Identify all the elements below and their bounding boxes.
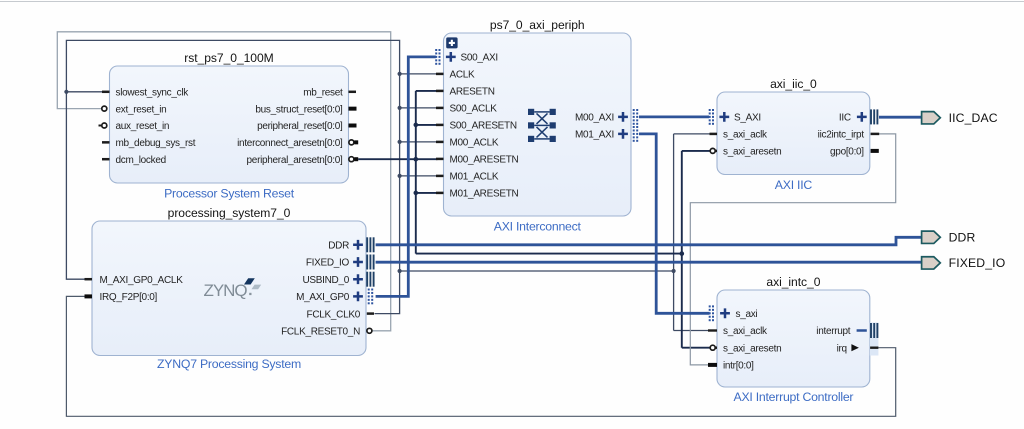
svg-text:FCLK_CLK0: FCLK_CLK0: [307, 309, 361, 320]
svg-text:mb_reset: mb_reset: [303, 88, 343, 99]
svg-text:s_axi: s_axi: [736, 309, 758, 320]
svg-text:M01_ARESETN: M01_ARESETN: [450, 189, 519, 200]
svg-text:ext_reset_in: ext_reset_in: [116, 104, 167, 115]
svg-text:gpo[0:0]: gpo[0:0]: [830, 147, 864, 158]
svg-text:irq: irq: [837, 343, 847, 354]
svg-text:ps7_0_axi_periph: ps7_0_axi_periph: [490, 18, 585, 32]
svg-text:bus_struct_reset[0:0]: bus_struct_reset[0:0]: [255, 104, 343, 115]
svg-text:DDR: DDR: [328, 241, 349, 252]
svg-text:iic2intc_irpt: iic2intc_irpt: [818, 130, 865, 141]
svg-text:aux_reset_in: aux_reset_in: [116, 121, 170, 132]
svg-text:IIC_DAC: IIC_DAC: [949, 111, 998, 125]
svg-text:interrupt: interrupt: [816, 326, 851, 337]
svg-text:Processor System Reset: Processor System Reset: [164, 187, 295, 201]
svg-text:IIC: IIC: [839, 113, 851, 124]
svg-text:DDR: DDR: [949, 231, 976, 245]
svg-text:FIXED_IO: FIXED_IO: [949, 256, 1006, 270]
svg-text:s_axi_aresetn: s_axi_aresetn: [723, 343, 781, 354]
svg-text:M01_AXI: M01_AXI: [575, 130, 614, 141]
svg-text:slowest_sync_clk: slowest_sync_clk: [116, 88, 190, 99]
svg-text:AXI IIC: AXI IIC: [775, 178, 813, 192]
svg-text:FCLK_RESET0_N: FCLK_RESET0_N: [281, 327, 360, 338]
svg-text:IRQ_F2P[0:0]: IRQ_F2P[0:0]: [100, 292, 158, 303]
svg-text:ZYNQ: ZYNQ: [204, 281, 248, 300]
svg-text:axi_iic_0: axi_iic_0: [770, 77, 817, 91]
svg-text:interconnect_aresetn[0:0]: interconnect_aresetn[0:0]: [237, 138, 343, 149]
svg-text:M00_ACLK: M00_ACLK: [450, 138, 499, 149]
svg-text:intr[0:0]: intr[0:0]: [723, 361, 754, 372]
svg-text:M00_AXI: M00_AXI: [575, 113, 614, 124]
svg-text:AXI Interrupt Controller: AXI Interrupt Controller: [734, 390, 854, 404]
svg-text:S00_ACLK: S00_ACLK: [450, 104, 498, 115]
svg-text:mb_debug_sys_rst: mb_debug_sys_rst: [116, 138, 196, 149]
svg-text:s_axi_aresetn: s_axi_aresetn: [723, 147, 781, 158]
svg-text:rst_ps7_0_100M: rst_ps7_0_100M: [184, 51, 273, 65]
svg-text:FIXED_IO: FIXED_IO: [306, 258, 350, 269]
svg-text:M_AXI_GP0: M_AXI_GP0: [296, 292, 350, 303]
svg-text:dcm_locked: dcm_locked: [116, 155, 166, 166]
svg-text:processing_system7_0: processing_system7_0: [168, 206, 291, 220]
svg-text:ARESETN: ARESETN: [450, 87, 495, 98]
svg-text:S00_AXI: S00_AXI: [461, 53, 498, 64]
svg-text:ZYNQ7 Processing System: ZYNQ7 Processing System: [157, 357, 301, 371]
svg-text:s_axi_aclk: s_axi_aclk: [723, 326, 768, 337]
svg-text:axi_intc_0: axi_intc_0: [766, 275, 820, 289]
svg-text:M00_ARESETN: M00_ARESETN: [450, 155, 519, 166]
svg-text:AXI Interconnect: AXI Interconnect: [494, 220, 582, 234]
svg-text:S00_ARESETN: S00_ARESETN: [450, 121, 517, 132]
svg-text:s_axi_aclk: s_axi_aclk: [723, 130, 768, 141]
svg-text:M_AXI_GP0_ACLK: M_AXI_GP0_ACLK: [100, 275, 184, 286]
svg-text:peripheral_aresetn[0:0]: peripheral_aresetn[0:0]: [247, 155, 343, 166]
svg-text:M01_ACLK: M01_ACLK: [450, 172, 499, 183]
svg-text:ACLK: ACLK: [450, 70, 476, 81]
svg-text:USBIND_0: USBIND_0: [302, 275, 349, 286]
svg-text:peripheral_reset[0:0]: peripheral_reset[0:0]: [257, 121, 343, 132]
svg-text:S_AXI: S_AXI: [734, 113, 761, 124]
